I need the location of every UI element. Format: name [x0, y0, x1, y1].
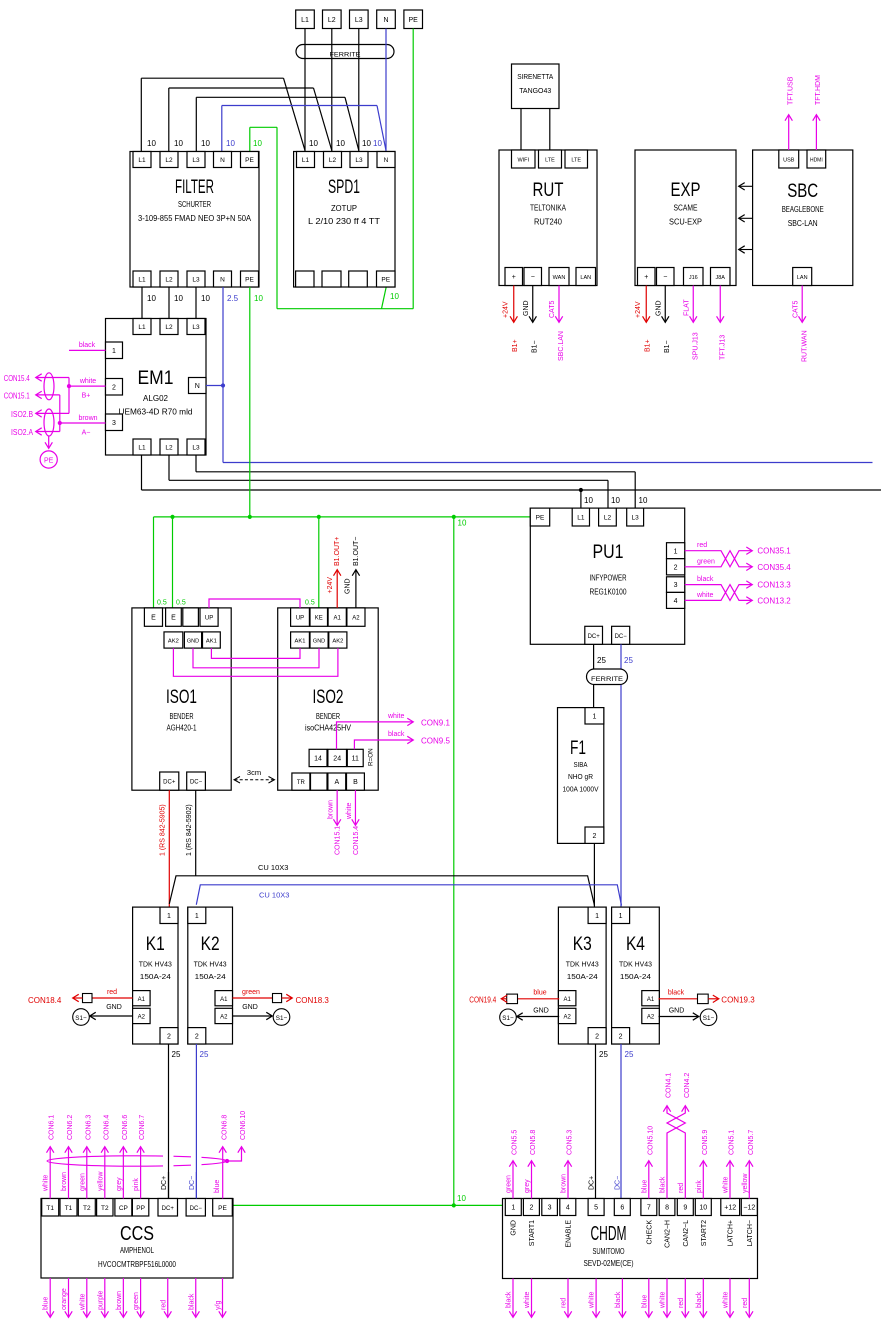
svg-text:L2: L2 — [165, 445, 173, 452]
svg-text:ISO2.A: ISO2.A — [11, 428, 34, 437]
svg-text:A2: A2 — [352, 616, 360, 622]
svg-text:SCHURTER: SCHURTER — [178, 200, 211, 209]
svg-text:SBC-LAN: SBC-LAN — [788, 219, 818, 228]
svg-text:brown: brown — [561, 1174, 568, 1193]
svg-text:red: red — [742, 1298, 749, 1308]
svg-text:25: 25 — [625, 1050, 634, 1059]
wire EXP J16 FLAT to SPU.J13 — [684, 286, 700, 361]
svg-text:L3: L3 — [192, 277, 200, 284]
svg-text:grey: grey — [116, 1177, 123, 1191]
svg-text:CON6.1: CON6.1 — [49, 1115, 56, 1140]
svg-text:CON15.1: CON15.1 — [335, 826, 342, 855]
svg-text:CAT5: CAT5 — [549, 301, 556, 318]
wire CCS output green — [133, 1278, 141, 1317]
svg-text:10: 10 — [457, 1194, 466, 1203]
wire L3 phase — [196, 29, 358, 152]
wire K1 A1 red to CON18.4 — [28, 989, 133, 1005]
svg-text:CON15.1: CON15.1 — [4, 392, 30, 401]
wire FILTER L3 to EM1 L3 — [195, 287, 197, 319]
svg-text:DC−: DC− — [190, 1206, 203, 1212]
svg-text:150A-24: 150A-24 — [195, 972, 226, 981]
svg-text:10: 10 — [390, 292, 399, 301]
input terminal L1 — [296, 10, 315, 29]
svg-text:S1−: S1− — [703, 1015, 715, 1022]
power unit PU1 (INFYPOWER REG1K0100) — [530, 508, 684, 644]
svg-text:SIRENETTA: SIRENETTA — [517, 74, 553, 81]
svg-text:LATCH+: LATCH+ — [728, 1220, 735, 1247]
svg-text:CP: CP — [119, 1205, 128, 1212]
svg-text:CON6.3: CON6.3 — [85, 1115, 92, 1140]
svg-text:B1−: B1− — [664, 340, 671, 353]
svg-text:blue: blue — [214, 1180, 221, 1193]
svg-text:WAN: WAN — [553, 275, 566, 281]
svg-text:DC+: DC+ — [588, 634, 601, 640]
wire ISO2 A1 +24V B1.OUT+ — [327, 537, 341, 608]
wire EM1 L3 out to PU1 — [196, 455, 648, 508]
svg-text:CON4.1: CON4.1 — [666, 1073, 673, 1098]
svg-text:GND: GND — [242, 1004, 258, 1011]
twisted pair symbol ISO2 — [44, 409, 54, 436]
svg-text:PE: PE — [245, 157, 254, 164]
svg-text:B+: B+ — [82, 393, 91, 400]
svg-text:green: green — [242, 989, 260, 996]
svg-text:LTE: LTE — [545, 158, 555, 164]
svg-text:L2: L2 — [165, 277, 173, 284]
svg-text:AMPHENOL: AMPHENOL — [120, 1246, 154, 1255]
svg-text:A2: A2 — [563, 1015, 571, 1021]
svg-text:GND: GND — [669, 1008, 685, 1015]
svg-text:black: black — [660, 1176, 667, 1193]
svg-text:LAN: LAN — [797, 275, 808, 281]
svg-text:B1+: B1+ — [512, 339, 519, 352]
svg-text:A: A — [334, 779, 339, 786]
wire CHDM output white — [589, 1279, 597, 1318]
wire K2 pin2 to CCS DC- (blue 25mm) — [196, 1044, 209, 1199]
ferrite FERRITE (mains) — [296, 45, 394, 59]
wire EM1 pin2 white B+ sense — [67, 378, 106, 400]
svg-text:CON13.3: CON13.3 — [757, 581, 791, 590]
cable sheath symbol CCS harness — [47, 1150, 227, 1172]
wire CHDM pink to CON5.9 — [696, 1130, 709, 1199]
svg-text:DC−: DC− — [615, 1176, 622, 1190]
svg-text:2: 2 — [112, 384, 116, 391]
wire SBC-EXP link arrow 1 — [739, 185, 753, 187]
isolation monitor ISO1 (BENDER AGH420-1) — [132, 608, 231, 790]
wire EM1 pin3 brown A- sense — [58, 415, 106, 437]
svg-text:orange: orange — [61, 1288, 68, 1310]
svg-text:white: white — [79, 1294, 86, 1311]
wire L1 phase (input to SPD1 and FILTER) — [141, 29, 305, 152]
svg-text:1: 1 — [592, 713, 596, 720]
svg-text:ZOTUP: ZOTUP — [331, 204, 357, 213]
svg-text:REG1K0100: REG1K0100 — [590, 588, 627, 597]
svg-text:CON18.3: CON18.3 — [296, 996, 330, 1005]
svg-text:CHDM: CHDM — [591, 1223, 627, 1245]
svg-text:T2: T2 — [83, 1205, 91, 1212]
svg-text:TFT.HDM: TFT.HDM — [815, 75, 822, 105]
wire K3 A2 GND to S1- — [500, 1008, 560, 1026]
svg-text:CON35.4: CON35.4 — [757, 563, 791, 572]
svg-text:10: 10 — [699, 1205, 707, 1212]
wire DC- bus CU 10X3 blue (K2 to K4) — [196, 885, 621, 906]
contactor K2 (TDK HV43 150A-24) — [188, 907, 233, 1044]
svg-text:CON6.6: CON6.6 — [122, 1115, 129, 1140]
svg-text:10: 10 — [226, 139, 235, 148]
svg-text:SIBA: SIBA — [574, 760, 588, 769]
svg-text:START2: START2 — [701, 1220, 708, 1246]
wire ISO1 DC+ red RS 842-5905 to K1 — [160, 790, 170, 906]
svg-text:CCS: CCS — [120, 1223, 154, 1245]
svg-text:AK2: AK2 — [332, 639, 343, 645]
svg-text:CON6.7: CON6.7 — [139, 1115, 146, 1140]
wire RUT +24V supply — [503, 286, 520, 353]
svg-text:white: white — [79, 378, 96, 385]
svg-text:4: 4 — [566, 1205, 570, 1212]
svg-text:A2: A2 — [138, 1015, 146, 1021]
wire CCS output brown — [116, 1278, 124, 1317]
svg-text:RUT240: RUT240 — [534, 218, 563, 227]
svg-text:150A-24: 150A-24 — [620, 972, 651, 981]
svg-text:7: 7 — [647, 1205, 651, 1212]
svg-text:2: 2 — [592, 833, 596, 840]
svg-text:1: 1 — [195, 913, 199, 920]
wire CHDM yellow to CON5.7 — [742, 1130, 755, 1199]
wire K2 A1 green to CON18.3 — [233, 989, 330, 1005]
svg-text:UP: UP — [296, 616, 304, 622]
svg-text:CON9.1: CON9.1 — [421, 719, 450, 728]
twisted pair symbol CON15 — [44, 373, 54, 400]
svg-text:24: 24 — [333, 756, 341, 763]
svg-text:WIFI: WIFI — [517, 158, 529, 164]
svg-text:+24V: +24V — [327, 577, 334, 594]
wire CHDM output white — [723, 1279, 731, 1318]
input terminal L2 — [323, 10, 342, 29]
svg-text:EXP: EXP — [671, 180, 701, 201]
wire DC+ bus CU 10X3 (K1 to K3) — [169, 863, 594, 906]
energy meter EM1 (ALG02 UEM63-4D R70 mld) — [106, 319, 207, 456]
svg-text:3: 3 — [674, 582, 678, 589]
svg-text:EM1: EM1 — [138, 368, 174, 389]
wire CHDM output red — [678, 1279, 686, 1318]
svg-text:L1: L1 — [138, 445, 146, 452]
svg-text:CON19.3: CON19.3 — [721, 996, 755, 1005]
svg-text:K2: K2 — [201, 934, 220, 955]
svg-text:red: red — [697, 542, 707, 549]
svg-text:25: 25 — [599, 1050, 608, 1059]
svg-text:CU 10X3: CU 10X3 — [259, 891, 289, 900]
svg-text:TDK HV43: TDK HV43 — [619, 960, 652, 969]
svg-text:L3: L3 — [355, 157, 363, 164]
svg-text:white: white — [723, 1177, 730, 1194]
svg-text:CON5.8: CON5.8 — [530, 1130, 537, 1155]
svg-text:+24V: +24V — [503, 301, 510, 318]
wire ISO1 DC- RS 842-5902 to DC bus — [186, 790, 196, 876]
svg-text:1: 1 — [674, 548, 678, 555]
svg-text:black: black — [668, 990, 685, 997]
svg-text:2: 2 — [529, 1205, 533, 1212]
wire CHDM grey to CON5.8 — [524, 1130, 537, 1199]
connector CCS (AMPHENOL HVCOCMTRBPF516L0000) — [41, 1199, 233, 1279]
node CON15.4 connection — [4, 374, 69, 413]
svg-text:SBC.LAN: SBC.LAN — [558, 331, 565, 361]
wire SBC HDMI to TFT.HDM — [815, 75, 822, 150]
svg-text:PU1: PU1 — [593, 542, 624, 563]
svg-text:black: black — [696, 1291, 703, 1308]
svg-text:2.5: 2.5 — [227, 294, 239, 303]
svg-text:ISO1: ISO1 — [166, 687, 197, 708]
svg-text:TDK HV43: TDK HV43 — [566, 960, 599, 969]
svg-text:N: N — [195, 383, 200, 390]
ferrite FERRITE (DC) — [587, 669, 628, 685]
svg-text:red: red — [678, 1183, 685, 1193]
svg-text:KE: KE — [315, 616, 323, 622]
wire CHDM pin6 DC- label — [615, 1176, 622, 1190]
svg-text:GND: GND — [345, 578, 352, 594]
svg-text:DC−: DC− — [190, 780, 203, 786]
svg-text:GND: GND — [533, 1008, 549, 1015]
wire CHDM output black — [506, 1279, 514, 1318]
wire ISO2 B white to CON15.4 — [346, 790, 360, 855]
filter FILTER (SCHURTER 3-109-855 FMAD NEO 3P+N 50A) — [130, 139, 263, 303]
svg-text:white: white — [346, 803, 353, 820]
wire siren to RUT WIFI — [520, 109, 522, 151]
svg-text:25: 25 — [172, 1050, 181, 1059]
wire L2 phase — [169, 29, 332, 152]
svg-text:10: 10 — [201, 139, 210, 148]
svg-text:L3: L3 — [355, 17, 363, 24]
svg-text:K4: K4 — [626, 934, 645, 955]
wire CCS pink to CON6.7 — [133, 1115, 146, 1199]
wire CHDM CAN pair to CON4.1 CON4.2 (twisted) — [660, 1073, 691, 1199]
svg-text:CON13.2: CON13.2 — [757, 596, 791, 605]
svg-text:red: red — [107, 989, 117, 996]
wire PU1 signal pair 3/4 to CON13.3 CON13.2 — [685, 576, 792, 605]
svg-text:black: black — [388, 731, 405, 738]
svg-text:HDMI: HDMI — [810, 158, 823, 164]
svg-text:L2: L2 — [165, 324, 173, 331]
wire K3 A1 blue to CON19.4 — [469, 990, 559, 1005]
svg-text:N: N — [220, 277, 225, 284]
svg-text:CON6.2: CON6.2 — [67, 1115, 74, 1140]
svg-text:+24V: +24V — [635, 301, 642, 318]
wire EM1 pin1 black sense — [69, 342, 106, 350]
svg-text:K3: K3 — [573, 934, 592, 955]
svg-text:L2: L2 — [604, 515, 612, 522]
svg-text:10: 10 — [373, 139, 382, 148]
svg-text:DC−: DC− — [615, 634, 628, 640]
svg-text:1: 1 — [511, 1205, 515, 1212]
svg-text:BENDER: BENDER — [316, 712, 340, 721]
svg-text:10: 10 — [253, 139, 262, 148]
wire PE earth bus (green) — [154, 287, 531, 1205]
svg-text:J16: J16 — [689, 275, 698, 281]
wire K1 A2 GND to S1- — [73, 1004, 133, 1025]
svg-text:AK1: AK1 — [295, 639, 306, 645]
svg-text:red: red — [561, 1298, 568, 1308]
wire PE to CHDM (green) — [232, 1194, 505, 1208]
svg-text:N: N — [384, 157, 389, 164]
svg-text:TFT.USB: TFT.USB — [788, 76, 795, 105]
wire FILTER L1 to EM1 L1 — [141, 287, 143, 319]
svg-text:CON5.3: CON5.3 — [567, 1130, 574, 1155]
svg-text:BENDER: BENDER — [170, 712, 194, 721]
wire RUT WAN CAT5 to SBC.LAN — [549, 286, 565, 362]
wire PU1 DC+ to F1 (25mm) — [594, 644, 607, 707]
svg-text:red: red — [160, 1300, 167, 1310]
svg-text:1 (RS 842-5905): 1 (RS 842-5905) — [160, 804, 167, 856]
svg-text:black: black — [188, 1293, 195, 1310]
wire ISO2 A brown to CON15.1 — [328, 790, 342, 855]
svg-text:B: B — [353, 779, 358, 786]
svg-text:SEVD-02ME(CE): SEVD-02ME(CE) — [584, 1259, 634, 1268]
svg-text:LTE: LTE — [571, 158, 581, 164]
svg-text:TFT.J13: TFT.J13 — [720, 335, 727, 360]
svg-text:1: 1 — [619, 913, 623, 920]
input terminal L3 — [350, 10, 369, 29]
svg-text:10: 10 — [147, 294, 156, 303]
svg-text:RUT: RUT — [533, 180, 564, 201]
svg-text:E: E — [171, 615, 176, 622]
wire EM1 L1 out to PU1 and offpage — [142, 455, 881, 508]
svg-text:white: white — [387, 713, 404, 720]
wire CCS output white — [79, 1278, 87, 1317]
svg-text:yellow: yellow — [742, 1173, 749, 1193]
wire CHDM pin5 DC+ label — [589, 1176, 596, 1190]
svg-text:T1: T1 — [46, 1205, 54, 1212]
svg-text:CON5.7: CON5.7 — [748, 1130, 755, 1155]
svg-text:white: white — [524, 1292, 531, 1309]
svg-text:A1: A1 — [334, 616, 342, 622]
svg-text:red: red — [678, 1298, 685, 1308]
svg-text:CON5.1: CON5.1 — [729, 1130, 736, 1155]
svg-text:L2: L2 — [328, 17, 336, 24]
fuse F1 (SIBA NHO gR 100A 1000V) — [558, 708, 604, 844]
wire SBC LAN CAT5 to RUT.WAN — [793, 286, 809, 363]
svg-text:5: 5 — [594, 1205, 598, 1212]
wire K3 pin2 to CHDM pin5 (25mm) — [596, 1044, 609, 1199]
wire PU1 DC- to K4 (blue 25mm) — [621, 644, 633, 906]
node ISO2.A connection — [11, 428, 60, 437]
svg-text:3: 3 — [548, 1205, 552, 1212]
wire FILTER L2 to EM1 L2 — [168, 287, 170, 319]
svg-text:8: 8 — [665, 1205, 669, 1212]
wire CCS output orange — [61, 1278, 69, 1317]
svg-text:green: green — [697, 558, 715, 565]
svg-text:PE: PE — [44, 458, 54, 465]
wire CHDM output white — [660, 1279, 668, 1318]
wire DC- through CCS harness — [189, 1150, 196, 1199]
wire CHDM white to CON5.1 — [723, 1130, 736, 1199]
svg-text:HVCOCMTRBPF516L0000: HVCOCMTRBPF516L0000 — [98, 1260, 176, 1269]
svg-text:1: 1 — [595, 913, 599, 920]
svg-text:3: 3 — [112, 420, 116, 427]
wire N neutral bus (blue) — [206, 287, 873, 463]
svg-text:CAT5: CAT5 — [793, 301, 800, 318]
wire CHDM output blue — [641, 1279, 649, 1318]
svg-text:K1: K1 — [146, 934, 165, 955]
wire CHDM output red — [742, 1279, 750, 1318]
svg-text:L 2/10 230 ff 4 TT: L 2/10 230 ff 4 TT — [308, 217, 380, 226]
svg-text:CON5.9: CON5.9 — [702, 1130, 709, 1155]
wire CHDM output white — [524, 1279, 532, 1318]
wire CCS output purple — [97, 1278, 105, 1317]
contactor K4 (TDK HV43 150A-24) — [612, 907, 660, 1044]
svg-text:L1: L1 — [302, 157, 310, 164]
svg-text:J8A: J8A — [716, 275, 726, 281]
wire CHDM brown to CON5.3 — [561, 1130, 574, 1199]
svg-text:brown: brown — [78, 415, 97, 422]
wire PE earth (green) input routing — [250, 29, 413, 309]
wire CHDM output black — [696, 1279, 704, 1318]
svg-text:14: 14 — [314, 756, 322, 763]
svg-text:T2: T2 — [101, 1205, 109, 1212]
svg-text:GND: GND — [511, 1220, 518, 1236]
svg-text:B1.OUT+: B1.OUT+ — [334, 537, 341, 566]
wire CHDM output black — [615, 1279, 623, 1318]
svg-text:2: 2 — [595, 1033, 599, 1040]
svg-text:3cm: 3cm — [247, 768, 261, 777]
svg-text:ENABLE: ENABLE — [566, 1220, 573, 1248]
wire CCS green to CON6.3 — [79, 1115, 92, 1199]
svg-text:B1.OUT−: B1.OUT− — [353, 537, 360, 566]
input terminal N — [377, 10, 396, 29]
svg-text:CON19.4: CON19.4 — [469, 996, 496, 1005]
svg-text:CON6.8: CON6.8 — [222, 1115, 229, 1140]
svg-text:blue: blue — [641, 1180, 648, 1193]
svg-text:B1−: B1− — [532, 340, 539, 353]
svg-text:+12: +12 — [724, 1205, 736, 1212]
svg-text:+: + — [644, 274, 648, 281]
svg-text:10: 10 — [254, 294, 263, 303]
svg-text:y/g: y/g — [215, 1301, 222, 1310]
wire K1 pin2 to CCS DC+ (25mm) — [169, 1044, 181, 1199]
svg-text:pink: pink — [133, 1178, 140, 1191]
wire ISO1 GND to ISO2 GND — [193, 648, 319, 668]
svg-text:white: white — [723, 1292, 730, 1309]
svg-text:GND: GND — [656, 300, 663, 316]
svg-text:blue: blue — [641, 1295, 648, 1308]
svg-text:PE: PE — [536, 515, 545, 522]
wire K4 pin2 to CHDM pin6 (blue 25mm) — [621, 1044, 634, 1199]
svg-text:DC+: DC+ — [163, 780, 176, 786]
svg-text:+: + — [512, 274, 516, 281]
wire DC+ through CCS harness — [161, 1150, 169, 1199]
svg-text:4: 4 — [674, 598, 678, 605]
svg-text:brown: brown — [116, 1291, 123, 1310]
expansion module EXP (SCAME SCU-EXP) — [635, 150, 736, 286]
svg-text:L3: L3 — [192, 445, 200, 452]
svg-text:SBC: SBC — [787, 181, 818, 202]
svg-text:PP: PP — [136, 1205, 145, 1212]
wire EM1 L2 out to PU1 — [169, 455, 620, 508]
svg-text:USB: USB — [783, 158, 795, 164]
wire ISO2 pin11 black to CON9.5 — [354, 731, 450, 749]
svg-text:R=ON: R=ON — [368, 748, 375, 766]
svg-text:L1: L1 — [138, 324, 146, 331]
dimension 3cm between ISO1 and ISO2 — [234, 768, 275, 783]
svg-text:ISO2.B: ISO2.B — [11, 410, 33, 419]
svg-text:DC+: DC+ — [589, 1176, 596, 1190]
wire CCS brown to CON6.2 — [61, 1115, 74, 1199]
wire K2 A2 GND to S1- — [233, 1004, 290, 1025]
svg-text:UEM63-4D R70 mld: UEM63-4D R70 mld — [119, 408, 193, 417]
svg-text:GND: GND — [523, 300, 530, 316]
wire CCS output black — [188, 1278, 196, 1317]
wire PU1 signal pair 1/2 to CON35.1 CON35.4 — [685, 542, 792, 572]
wire EXP +24V supply — [635, 286, 652, 353]
svg-text:SCAME: SCAME — [674, 204, 698, 213]
contactor K3 (TDK HV43 150A-24) — [558, 907, 606, 1044]
